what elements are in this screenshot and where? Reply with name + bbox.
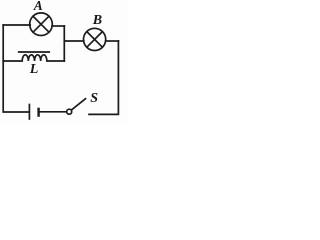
switch S lever — [71, 99, 85, 110]
wire A right to node — [52, 25, 64, 27]
lamp B — [84, 28, 106, 50]
battery long plate — [28, 105, 30, 120]
lamp A — [30, 13, 53, 36]
wire right-vertical and bottom-right — [89, 41, 118, 114]
wire B right — [106, 40, 119, 42]
wire top-left to lamp A — [3, 24, 30, 26]
wire battery to switch — [39, 111, 67, 113]
svg-text:A: A — [33, 0, 43, 13]
wire node mid-vertical — [63, 26, 65, 61]
battery short plate — [37, 109, 39, 116]
wire left-vertical and bottom-left — [3, 25, 29, 112]
svg-text:B: B — [92, 13, 102, 28]
svg-text:S: S — [90, 91, 98, 106]
svg-text:L: L — [29, 62, 39, 77]
switch pivot — [67, 109, 72, 114]
wire node to lamp B — [64, 40, 84, 42]
inductor L coil — [3, 55, 64, 61]
inductor core bar — [19, 51, 50, 53]
